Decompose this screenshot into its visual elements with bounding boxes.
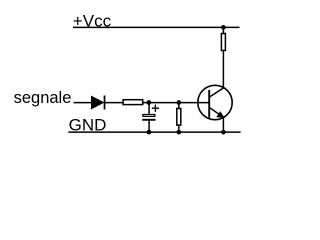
wire GND rail (68, 131, 240, 133)
resistor R2 (177, 109, 181, 126)
node junction C1 top (146, 100, 151, 105)
capacitor C1 plus sign (152, 105, 159, 112)
node junction emitter-GND (221, 130, 226, 135)
wire R1 to base (143, 102, 209, 104)
resistor Rc (221, 34, 225, 51)
node junction on +Vcc rail (221, 25, 226, 30)
wire collector (222, 51, 224, 88)
resistor R1 (123, 100, 143, 105)
diode D1 (91, 96, 104, 110)
node junction R2 bottom (176, 130, 181, 135)
wire R2 bottom stub (178, 125, 180, 132)
wire emitter (222, 117, 224, 132)
wire signal input (74, 102, 93, 104)
wire +Vcc rail (73, 26, 240, 28)
wire Rc top stub (222, 27, 224, 33)
wire R2 top stub (178, 103, 180, 109)
wire diode to R1 (105, 102, 123, 104)
svg-text:segnale: segnale (14, 89, 72, 107)
node junction R2 top (176, 100, 181, 105)
wire C1 top stub (148, 103, 150, 115)
wire C1 bottom stub (148, 120, 150, 132)
capacitor C1 (142, 115, 155, 120)
transistor Q1 (198, 85, 232, 119)
node junction C1 bottom (147, 130, 152, 135)
